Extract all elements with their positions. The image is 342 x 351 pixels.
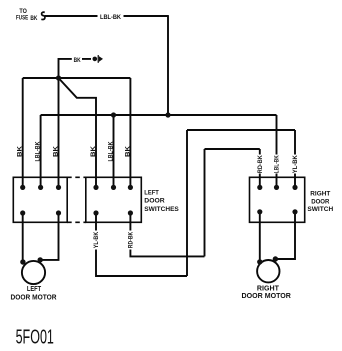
junction BK bus (56, 75, 61, 80)
svg-text:BK: BK (91, 145, 97, 157)
svg-text:TO: TO (19, 9, 27, 15)
wire LBL-BK to left switch B middle (113, 115, 115, 187)
svg-text:DOOR MOTOR: DOOR MOTOR (11, 294, 57, 301)
left door switch box B (86, 177, 142, 222)
terminal R1 (257, 185, 262, 190)
svg-text:LEFT: LEFT (144, 189, 159, 196)
junction LBL-BK at switch B (111, 112, 116, 117)
svg-text:LBL-BK: LBL-BK (36, 141, 42, 162)
wire RD-BK riser (204, 149, 206, 256)
wire BK to left switch A right (58, 78, 60, 187)
svg-text:BK: BK (18, 145, 24, 157)
node right motor right (273, 256, 278, 261)
svg-text:RD-BK: RD-BK (129, 231, 135, 248)
terminal A2 (38, 185, 43, 190)
terminal B2 (111, 185, 116, 190)
wire right motor right lead (275, 212, 295, 259)
terminal B4 (93, 210, 98, 215)
svg-text:YL-BK: YL-BK (94, 231, 100, 248)
terminal R5 (292, 209, 297, 214)
svg-text:LBL-BK: LBL-BK (100, 15, 122, 21)
right door switch box (250, 177, 305, 222)
wire BK to left switch A left (22, 78, 24, 187)
connector S1 to fuse (41, 12, 45, 19)
terminal R2 (274, 185, 279, 190)
wire LBL-BK fuse feed horizontal (45, 15, 168, 17)
left door switch box A (13, 177, 67, 222)
gang dashes between switch boxes (67, 177, 86, 222)
right door motor circle (257, 260, 279, 282)
svg-text:YL-BK: YL-BK (293, 155, 299, 174)
node right motor left (257, 259, 262, 264)
wire RD-BK top run (205, 149, 260, 187)
svg-text:DOOR: DOOR (144, 198, 165, 205)
wire LBL-BK main run (41, 114, 277, 116)
wire YL-BK top run (187, 130, 295, 187)
terminal B5 (128, 210, 133, 215)
connector BK male symbol (93, 57, 98, 62)
wire BK connector stub (59, 59, 92, 78)
wire YL-BK riser (186, 130, 188, 276)
svg-text:LBL-BK: LBL-BK (275, 155, 281, 174)
svg-text:5FO01: 5FO01 (16, 327, 54, 349)
wire YL-BK bottom run (96, 213, 187, 276)
svg-text:DOOR: DOOR (311, 199, 329, 206)
wire BK to left switch B right (129, 78, 131, 187)
junction LBL-BK at fuse feed (165, 112, 170, 117)
svg-text:DOOR MOTOR: DOOR MOTOR (242, 293, 291, 300)
left door motor circle (22, 261, 45, 284)
wire LBL-BK to right switch middle (276, 115, 278, 187)
svg-text:BK: BK (54, 145, 60, 157)
svg-text:RIGHT: RIGHT (310, 190, 330, 197)
svg-text:LBL-BK: LBL-BK (109, 141, 115, 162)
terminal A5 (56, 210, 61, 215)
svg-text:BK: BK (30, 16, 38, 22)
svg-text:BK: BK (74, 58, 82, 64)
wire RD-BK bottom run (130, 213, 204, 256)
svg-text:BK: BK (125, 145, 131, 157)
node left motor right (38, 257, 43, 262)
terminal B3 (128, 185, 133, 190)
svg-text:FUSE: FUSE (16, 16, 28, 22)
wire BK diagonal to left switch B left (59, 78, 97, 187)
svg-text:RD-BK: RD-BK (258, 155, 264, 174)
wire left motor right lead (40, 213, 58, 260)
wire left motor left lead (22, 213, 24, 262)
terminal A4 (20, 210, 25, 215)
svg-text:RIGHT: RIGHT (257, 285, 280, 292)
svg-text:SWITCH: SWITCH (307, 206, 333, 213)
wire LBL-BK to left switch A middle (40, 115, 42, 187)
terminal R4 (257, 209, 262, 214)
wire BK bus (23, 77, 131, 79)
terminal A3 (56, 185, 61, 190)
wire LBL-BK fuse feed vertical (167, 15, 169, 115)
terminal B1 (93, 185, 98, 190)
svg-text:LEFT: LEFT (27, 286, 42, 293)
node left motor left (20, 259, 25, 264)
wire right motor left lead (259, 212, 261, 262)
svg-text:SWITCHES: SWITCHES (144, 206, 179, 213)
terminal A1 (20, 185, 25, 190)
terminal R3 (292, 185, 297, 190)
